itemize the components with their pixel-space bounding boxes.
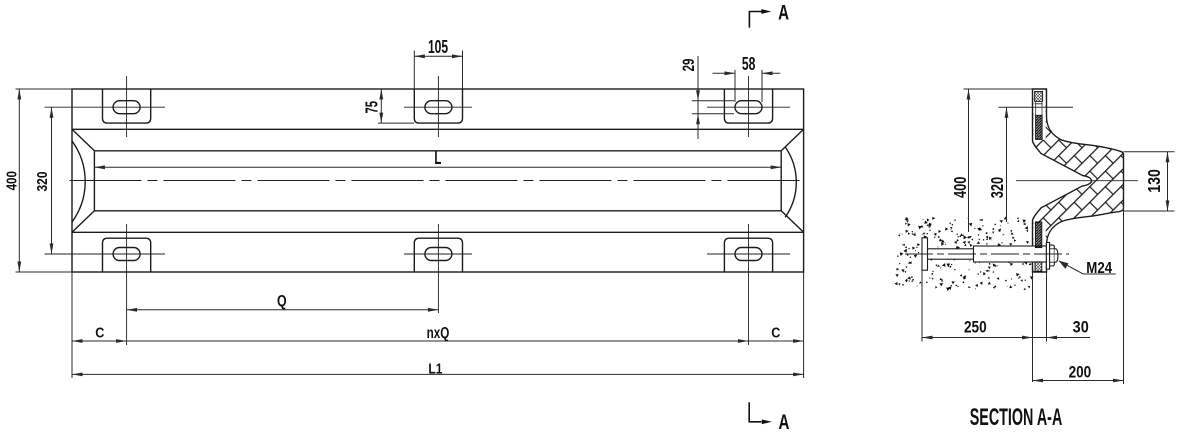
- left inner vertical edge: [93, 151, 95, 211]
- extension line fender left edge down: [71, 272, 73, 378]
- right end chamfer bottom: [781, 211, 803, 233]
- bolt axis center line: [905, 253, 1069, 255]
- dimension 320 section: dim line: [1006, 107, 1008, 222]
- embedded washer plate (top flange): [1035, 92, 1043, 102]
- bottom lug vertical center line 2: [437, 224, 439, 313]
- washer under nut: [1046, 243, 1049, 270]
- dimension 29: extension lines (slot top/bottom): [692, 100, 734, 102]
- svg-text:C: C: [771, 324, 780, 341]
- dimension Q: dim line: [127, 309, 439, 311]
- washer seat line top: [1035, 103, 1043, 105]
- anchor end plate: [922, 238, 928, 270]
- bolt recess side walls (top flange): [1035, 101, 1037, 115]
- top slot horizontal center line 3: [707, 106, 790, 108]
- top lug vertical center line 1: [126, 76, 128, 137]
- dimension nxQ: dim line: [127, 340, 749, 342]
- dimension 58: dim line with outside arrows: [713, 72, 736, 74]
- left end chamfer bottom: [72, 211, 94, 233]
- bottom slot horizontal center line 1: [45, 253, 166, 255]
- svg-text:130: 130: [1146, 169, 1165, 193]
- svg-text:nxQ: nxQ: [427, 323, 450, 341]
- bottom slot horizontal center line 3: [707, 253, 790, 255]
- dimension 250: dim line: [922, 337, 1033, 339]
- dimension 200: dim line: [1033, 380, 1124, 382]
- anchor bolt shaft (embedded): [928, 249, 974, 259]
- bottom inner face line: [94, 210, 781, 212]
- bottom step line: [72, 231, 804, 233]
- bottom lug vertical center line 3: [748, 224, 750, 345]
- bottom mounting lug 1: [103, 238, 151, 272]
- right end chamfer top: [781, 129, 803, 151]
- section center line: [1016, 180, 1138, 182]
- left end chamfer top: [72, 129, 94, 151]
- svg-text:200: 200: [1069, 363, 1092, 382]
- svg-text:A: A: [778, 409, 789, 433]
- svg-text:75: 75: [363, 101, 382, 114]
- M24 leader: [1059, 261, 1116, 274]
- svg-text:105: 105: [428, 38, 448, 58]
- dimension L: dim line: [94, 166, 781, 168]
- top lug vertical center line 3: [748, 76, 750, 137]
- dimension 320 section: extension line: [999, 106, 1074, 108]
- dimension 58: extension lines: [734, 70, 736, 102]
- section top edge extension: [964, 88, 1033, 90]
- top bolt slot 2: [425, 101, 452, 114]
- top inner face line: [94, 150, 781, 152]
- dimension C right: dim line: [749, 340, 804, 342]
- dimension 105: extension lines: [413, 51, 415, 90]
- top mounting lug 3: [724, 89, 772, 123]
- bottom bolt slot 3: [735, 248, 762, 261]
- left end arch arc: [72, 141, 85, 222]
- svg-text:320: 320: [34, 172, 50, 192]
- right end arch arc: [785, 147, 796, 217]
- embedded washer plate (bottom flange): [1035, 262, 1042, 271]
- svg-text:58: 58: [742, 55, 756, 75]
- dimension 400 front: extension lines: [16, 88, 73, 90]
- dimension C left: dim line: [72, 340, 127, 342]
- top step line: [72, 128, 804, 130]
- top mounting lug 1: [103, 89, 151, 123]
- dimension 320 front: dim line: [51, 107, 53, 254]
- section marker A top: [749, 12, 761, 28]
- concrete stipple (embedment): [894, 217, 1033, 292]
- bolt recess hatch (bottom flange): [1035, 222, 1041, 248]
- right inner vertical edge: [780, 151, 782, 211]
- dimension 130: extension lines: [1124, 151, 1175, 153]
- dimension 400 front: dim line: [18, 89, 20, 272]
- svg-text:29: 29: [680, 59, 699, 72]
- svg-text:320: 320: [988, 177, 1008, 199]
- svg-text:L1: L1: [428, 360, 442, 377]
- top slot horizontal center line 1: [45, 106, 166, 108]
- svg-text:A: A: [778, 0, 789, 24]
- bottom bolt slot 1: [113, 248, 140, 261]
- dimension 75: extension line: [378, 122, 414, 124]
- bottom mounting lug 2: [414, 238, 462, 272]
- flange face extension down: [1046, 272, 1048, 342]
- top bolt slot 1: [113, 101, 140, 114]
- horizontal center line: [70, 180, 804, 182]
- extension line fender right edge down: [803, 272, 805, 378]
- top bolt slot 3: [735, 101, 762, 114]
- dimension 75: dim line: [380, 89, 382, 123]
- top lug vertical center line 2: [437, 76, 439, 137]
- svg-text:250: 250: [964, 318, 987, 337]
- svg-text:Q: Q: [277, 292, 287, 310]
- dimension 200: extension line right: [1123, 207, 1125, 385]
- section marker A bottom: [749, 402, 761, 422]
- dimension 400 section: dim line: [968, 89, 970, 232]
- bolt recess hatch (top flange): [1036, 115, 1043, 139]
- fender body outline (front view): [72, 89, 804, 272]
- wall line extension down: [1032, 272, 1034, 382]
- rubber fender section body (hatched): [1033, 89, 1124, 272]
- dimension 130: dim line: [1167, 152, 1169, 211]
- bottom slot horizontal center line 2: [404, 253, 472, 255]
- svg-text:400: 400: [951, 176, 971, 198]
- bottom bolt slot 2: [425, 248, 452, 261]
- top mounting lug 2: [414, 89, 462, 123]
- dimension L1: dim line: [72, 373, 804, 375]
- svg-text:30: 30: [1073, 318, 1089, 336]
- dimension 105: dim line: [414, 55, 462, 57]
- svg-text:M24: M24: [1086, 260, 1113, 277]
- svg-text:400: 400: [3, 171, 19, 190]
- dimension 250: extension line left: [921, 271, 923, 342]
- dimension 30: dim line with outside arrow: [1033, 337, 1091, 339]
- bolt tip: [1054, 249, 1058, 262]
- dimension 29: dim line: [697, 56, 699, 139]
- bottom mounting lug 3: [724, 238, 772, 272]
- svg-text:C: C: [95, 324, 104, 341]
- svg-text:SECTION A-A: SECTION A-A: [970, 404, 1063, 431]
- bottom lug vertical center line 1: [126, 224, 128, 345]
- hex nut M24: [1050, 245, 1055, 266]
- top slot horizontal center line 2: [404, 106, 472, 108]
- svg-text:L: L: [434, 148, 441, 169]
